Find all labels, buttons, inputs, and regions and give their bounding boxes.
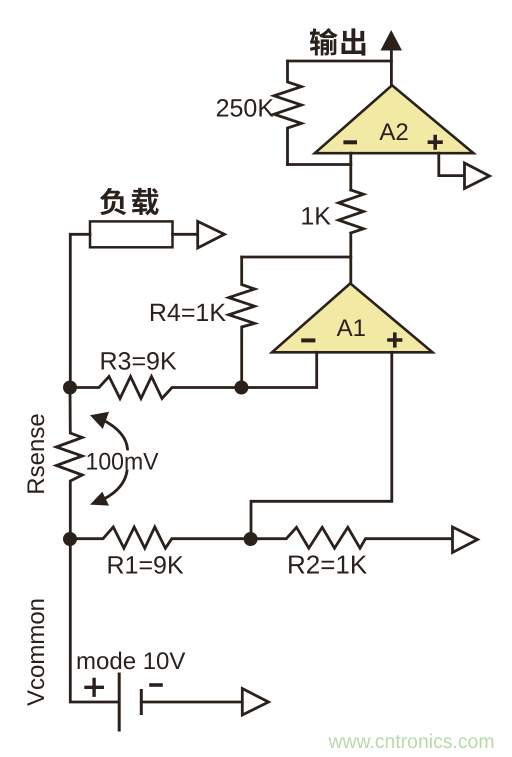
svg-text:mode 10V: mode 10V [76, 648, 185, 675]
wire output top horizontal [288, 60, 392, 63]
battery minus sign [151, 683, 161, 687]
svg-text:Rsense: Rsense [23, 413, 50, 494]
A2 minus pin [345, 140, 355, 144]
100mV arrowhead bottom [90, 492, 109, 506]
R2 output arrow (open) [453, 527, 478, 553]
svg-text:R4=1K: R4=1K [149, 299, 226, 327]
battery output arrow (open) [242, 689, 268, 716]
output arrow (filled, up) [381, 30, 403, 51]
wire R4 top horizontal [242, 256, 351, 259]
node junction R1 left [63, 532, 77, 546]
resistor R2 [251, 527, 451, 548]
resistor R1 [70, 527, 251, 548]
node junction R3 left [63, 381, 77, 395]
svg-text:R3=9K: R3=9K [100, 348, 177, 376]
node junction R1/R2 [244, 532, 258, 546]
wire A1 inverting input down-left to node [241, 352, 316, 387]
resistor R3 [70, 377, 241, 399]
svg-text:100mV: 100mV [86, 449, 159, 476]
resistor 250K [274, 61, 302, 165]
svg-text:1K: 1K [300, 203, 331, 231]
battery long plate (+) [118, 674, 121, 730]
battery short plate (-) [140, 691, 143, 714]
svg-text:R2=1K: R2=1K [287, 550, 368, 580]
100mV curved arrow arc [103, 420, 128, 449]
wire Vcommon rail down [70, 539, 118, 702]
A2 output arrow (open) [465, 163, 490, 189]
svg-text:A1: A1 [337, 315, 366, 342]
wire load left to rail [70, 234, 90, 387]
wire 250K bottom to A2 inverting input [288, 163, 351, 166]
wire load right to arrow [173, 233, 197, 236]
wire 1K to A1 apex [349, 233, 352, 284]
wire A2 inverting input down [349, 153, 352, 190]
resistor R4 [229, 257, 255, 388]
resistor 1K [339, 190, 364, 233]
svg-text:R1=9K: R1=9K [107, 552, 184, 580]
wire battery to arrow [141, 701, 241, 704]
load arrow (open) [198, 221, 225, 248]
svg-text:www.cntronics.com: www.cntronics.com [328, 731, 495, 753]
load resistor box [90, 221, 173, 247]
battery plus sign [86, 680, 102, 696]
node junction R3 right / R4 bottom [234, 381, 248, 395]
label 输出 (output) [310, 28, 366, 55]
A1 minus pin [303, 338, 313, 342]
op-amp A2 [315, 85, 474, 153]
wire arrow to A2 apex [390, 49, 393, 86]
resistor Rsense [56, 388, 82, 540]
op-amp A1 [272, 283, 433, 352]
svg-text:250K: 250K [216, 95, 275, 123]
A2 output wire from plus side [439, 153, 463, 175]
wire A1 noninverting input down [251, 352, 392, 539]
label 负载 (load) [100, 188, 159, 215]
A2 plus pin [429, 137, 441, 149]
100mV arrowhead top [90, 412, 109, 429]
svg-text:Vcommon: Vcommon [23, 598, 50, 706]
A1 plus pin [389, 334, 401, 346]
svg-text:A2: A2 [379, 119, 408, 146]
